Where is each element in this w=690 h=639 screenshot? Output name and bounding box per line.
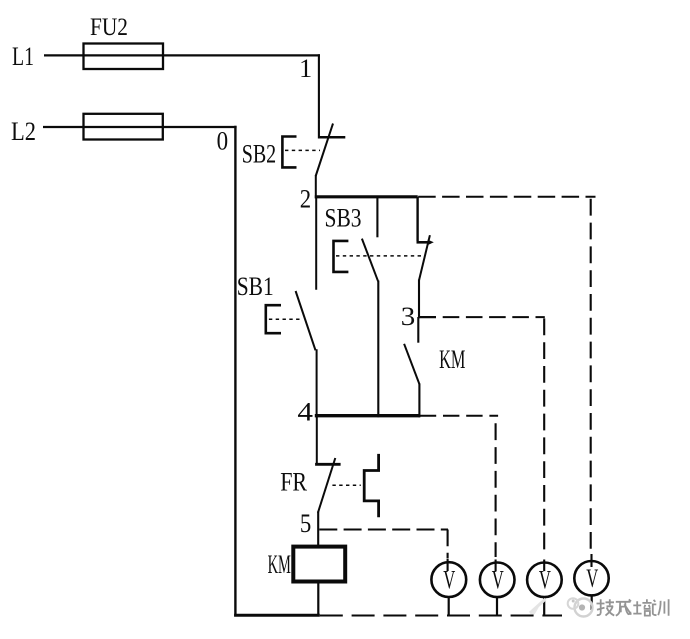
svg-text:SB2: SB2 (242, 139, 277, 168)
wire node 3 dashed drop to V3 (543, 318, 545, 555)
pushbutton SB3 (NO start) upper wire (376, 197, 378, 238)
wire coil to bottom rail (317, 582, 319, 616)
wire L1 rail (44, 54, 320, 56)
wire node 3 to V3 (dashed) (443, 316, 545, 318)
wire node 5 to V1 (dashed) (319, 529, 448, 531)
wire node 2 to V4 (dashed) (418, 196, 595, 198)
voltmeter V3 (527, 563, 562, 598)
contact KM self-hold upper wire (416, 197, 418, 241)
svg-text:SB3: SB3 (325, 203, 362, 232)
wire bottom rail (dashed) (320, 614, 562, 616)
voltmeter V4 bottom tick (591, 596, 593, 610)
watermark char ji (597, 599, 605, 615)
pushbutton SB1 actuator link (dotted) (269, 318, 302, 320)
wire KM self-hold to node 3 (418, 280, 420, 319)
voltmeter V4 top tick (590, 554, 592, 567)
wire KM contact to node 4 (418, 384, 420, 418)
pushbutton SB1 (NC) upper wire (315, 197, 317, 290)
voltmeter V2 top tick (495, 560, 497, 572)
svg-text:FU2: FU2 (90, 14, 128, 41)
svg-text:V: V (586, 564, 598, 593)
svg-text:KM: KM (268, 550, 291, 579)
svg-text:V: V (492, 566, 504, 595)
voltmeter V4 (574, 561, 608, 595)
pushbutton SB2 (NC stop) contact bar (318, 136, 345, 139)
svg-text:KM: KM (439, 345, 465, 374)
contact KM self-hold blade (419, 235, 430, 280)
svg-text:5: 5 (300, 509, 311, 538)
node 3 tick (419, 316, 436, 318)
svg-text:L2: L2 (11, 117, 36, 146)
watermark swoosh (530, 599, 546, 613)
contact KM self-hold arrowhead (428, 240, 434, 246)
pushbutton SB3 blade (362, 239, 378, 282)
wire node 4 bus (solid) (315, 414, 420, 417)
wire SB2 to node 2 (315, 175, 317, 198)
svg-text:L1: L1 (12, 42, 34, 71)
pushbutton SB1 blade (296, 291, 316, 350)
voltmeter V2 bottom tick (496, 597, 498, 615)
wire SB1 to node 4 (316, 349, 318, 417)
pushbutton SB3 actuator link (dotted) (336, 255, 424, 257)
voltmeter V2 (480, 563, 515, 598)
fuse (L2) (84, 114, 163, 140)
svg-text:SB1: SB1 (237, 272, 274, 301)
watermark char xun (653, 599, 669, 615)
wire node 4 down to FR (316, 415, 318, 466)
wire main vertical from L1 (318, 54, 320, 138)
wire node 5 dashed drop to V1 (447, 530, 449, 559)
wire node 2 dashed drop to V4 (590, 199, 592, 550)
voltmeter V3 top tick (543, 560, 545, 572)
watermark logo (575, 599, 593, 617)
fuse FU2 (L1) (84, 44, 164, 70)
relay FR blade (318, 458, 335, 513)
wire node 4 to V2 (dashed) (420, 415, 498, 417)
relay FR heater element (364, 454, 378, 517)
pushbutton SB2 actuator bracket (282, 137, 296, 168)
svg-text:0: 0 (217, 127, 229, 156)
watermark char cheng (616, 599, 631, 615)
svg-text:1: 1 (299, 54, 312, 83)
voltmeter V3 bottom tick (543, 597, 545, 615)
wire node 2 bus (solid) (315, 195, 418, 198)
wire L2 rail (43, 126, 237, 128)
voltmeter V1 top tick (447, 559, 449, 572)
svg-text:V: V (443, 566, 455, 595)
contact KM self-hold terminal hook (417, 241, 432, 244)
wire node 4 dashed drop to V2 (495, 423, 497, 557)
contact KM (NO) blade (404, 344, 419, 385)
svg-text:V: V (539, 566, 551, 595)
wire SB3 to node 4 (377, 281, 379, 418)
voltmeter V1 bottom tick (448, 597, 450, 616)
svg-text:FR: FR (280, 467, 307, 496)
pushbutton SB2 actuator link (dotted) (285, 149, 320, 151)
voltmeter V1 (431, 562, 466, 597)
wire bottom rail (solid) (234, 614, 320, 617)
coil KM (293, 547, 345, 582)
pushbutton SB2 blade (316, 124, 333, 177)
watermark char pei (633, 599, 651, 615)
relay FR link (dotted) (332, 484, 360, 486)
pushbutton SB1 actuator bracket (266, 305, 281, 333)
svg-text:3: 3 (401, 302, 416, 331)
relay FR (NC) contact bar (315, 463, 341, 466)
contact KM (NO) upper wire (417, 317, 419, 343)
svg-text:4: 4 (297, 397, 313, 426)
watermark text (hand-drawn CJK strokes) (597, 599, 669, 616)
pushbutton SB3 actuator bracket (334, 241, 349, 272)
svg-text:2: 2 (300, 184, 311, 213)
wire left rail vertical (234, 126, 236, 617)
wire FR to coil (317, 512, 319, 547)
